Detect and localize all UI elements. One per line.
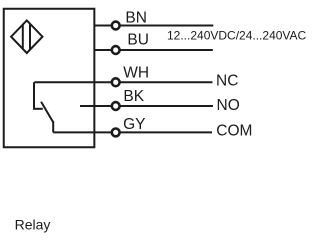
- svg-text:WH: WH: [123, 64, 149, 81]
- switch vertical lead from WH: [33, 82, 35, 109]
- svg-text:GY: GY: [123, 116, 145, 133]
- terminal circle GY: [112, 129, 120, 137]
- svg-text:BU: BU: [127, 32, 149, 49]
- wire GY: [53, 131, 212, 133]
- sensor body box: [4, 9, 95, 148]
- switch pivot foot: [33, 108, 43, 110]
- wire BK: [80, 105, 213, 107]
- terminal circle BU: [112, 46, 120, 54]
- svg-text:BN: BN: [125, 9, 147, 26]
- svg-text:NC: NC: [216, 72, 238, 89]
- diamond inner line left: [22, 25, 24, 49]
- wire BU: [94, 49, 213, 51]
- svg-text:12...240VDC/24...240VAC: 12...240VDC/24...240VAC: [167, 28, 307, 42]
- wire WH: [34, 81, 212, 83]
- proximity sensor diamond symbol: [11, 20, 42, 53]
- switch drop to GY: [52, 121, 54, 132]
- svg-text:BK: BK: [123, 88, 144, 105]
- terminal circle BN: [112, 22, 120, 30]
- wire BN: [94, 25, 213, 27]
- terminal circle BK: [112, 102, 120, 110]
- diamond inner line right: [29, 24, 31, 50]
- svg-text:NO: NO: [217, 97, 240, 114]
- svg-text:COM: COM: [216, 123, 252, 140]
- switch blade: [41, 102, 53, 122]
- terminal circle WH: [112, 78, 120, 86]
- svg-text:Relay: Relay: [15, 217, 51, 233]
